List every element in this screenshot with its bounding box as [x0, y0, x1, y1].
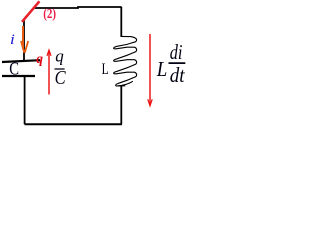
inductor bottom tick: [118, 85, 125, 87]
wire top horizontal: [34, 7, 121, 8]
wire left vertical lower: [24, 76, 26, 124]
voltage arrow q/C (red, up): [47, 50, 51, 95]
capacitor C top plate: [2, 60, 40, 62]
voltage arrow L di/dt (red, down): [148, 34, 152, 106]
inductor L coil: [114, 36, 137, 86]
wire left vertical upper: [23, 21, 25, 62]
current arrow i (orange, down): [21, 26, 28, 53]
svg-text:C: C: [55, 68, 67, 89]
svg-text:i: i: [10, 32, 15, 48]
svg-text:L: L: [156, 57, 167, 81]
capacitor C bottom plate: [2, 75, 35, 77]
wire right vertical lower: [120, 86, 122, 125]
switch blade (red): [22, 1, 39, 22]
svg-text:(2): (2): [43, 6, 56, 22]
svg-text:di: di: [170, 40, 183, 64]
svg-text:L: L: [102, 61, 109, 78]
label L di/dt: [156, 40, 186, 87]
svg-text:q: q: [36, 51, 43, 66]
svg-text:q: q: [55, 47, 64, 66]
svg-text:C: C: [9, 59, 19, 79]
svg-text:dt: dt: [170, 63, 186, 87]
wire right vertical upper: [120, 7, 122, 38]
wire bottom horizontal: [25, 123, 123, 125]
label q/C fraction: [55, 47, 67, 90]
